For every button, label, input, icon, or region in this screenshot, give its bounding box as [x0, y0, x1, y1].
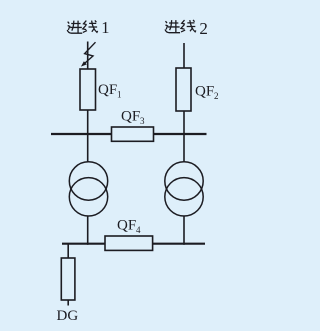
svg-text:2: 2	[214, 91, 219, 101]
svg-text:1: 1	[101, 18, 109, 37]
svg-text:2: 2	[199, 19, 208, 38]
svg-text:QF: QF	[195, 84, 214, 100]
svg-text:QF: QF	[98, 82, 117, 98]
svg-text:4: 4	[136, 225, 141, 235]
svg-text:QF: QF	[121, 109, 140, 125]
svg-text:1: 1	[117, 90, 122, 100]
svg-text:3: 3	[140, 116, 145, 126]
svg-text:QF: QF	[117, 218, 136, 234]
svg-text:DG: DG	[57, 308, 79, 324]
